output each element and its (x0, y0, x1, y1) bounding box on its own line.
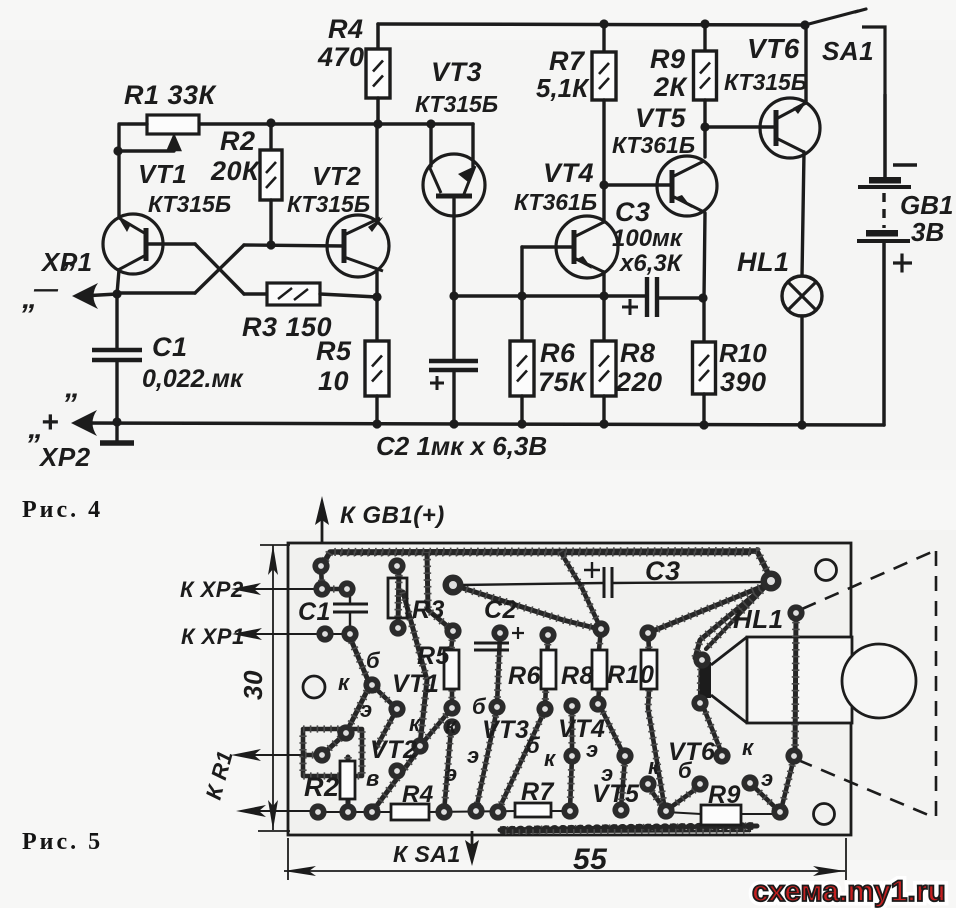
svg-text:VT2: VT2 (312, 161, 361, 191)
svg-text:R5: R5 (316, 336, 352, 366)
wire VT2 base lead (244, 245, 344, 246)
wire R7 to VT4 (602, 100, 605, 222)
lamp HL1 (782, 276, 822, 316)
svg-text:б: б (526, 733, 541, 758)
trace VT6 collector diag (703, 706, 722, 754)
PCB pad large HL1 (761, 571, 782, 592)
svg-text:”: ” (60, 257, 76, 290)
trace R2 loop (303, 729, 362, 776)
wire R7 top lead (602, 24, 605, 52)
svg-text:R6: R6 (508, 662, 542, 690)
svg-text:SA1: SA1 (822, 36, 874, 66)
wire GB1 top lead (883, 95, 887, 177)
PCB resistor R6 (541, 650, 556, 689)
svg-text:+: + (41, 406, 59, 439)
PCB pad large C2 (443, 575, 464, 596)
svg-text:э: э (586, 737, 599, 762)
junction node (699, 420, 708, 429)
junction node (266, 118, 275, 127)
wire VT3 emitter (471, 124, 474, 167)
wire VT6 collector (804, 25, 807, 103)
resistor R4 (366, 49, 390, 98)
arrow K SA1 (465, 831, 479, 866)
svg-text:30: 30 (238, 670, 268, 700)
svg-text:R8: R8 (561, 662, 594, 690)
wire R10 top lead (702, 298, 705, 342)
svg-text:3В: 3В (911, 217, 944, 247)
wire R9 top lead (703, 24, 706, 51)
wire R1 wiper (118, 149, 174, 152)
PCB pad lamp top (787, 604, 804, 621)
svg-text:VT6: VT6 (668, 738, 716, 766)
resistor R2 (260, 150, 282, 200)
trace R10 top stub (648, 633, 649, 650)
trace lamp vertical (795, 615, 796, 754)
svg-text:VT3: VT3 (482, 716, 529, 744)
svg-text:к: к (544, 746, 557, 771)
svg-text:55: 55 (573, 843, 608, 876)
svg-text:С3: С3 (615, 197, 651, 227)
PCB lamp HL1 bulb (842, 644, 916, 718)
PCB capacitor C1 (333, 592, 368, 628)
trace VT6 V left (648, 786, 664, 809)
svg-text:R10: R10 (607, 661, 654, 689)
svg-text:390: 390 (720, 367, 767, 397)
trace through R3 (398, 568, 399, 626)
svg-text:R4: R4 (328, 14, 364, 44)
thin connection line bottom row (318, 811, 391, 813)
junction node (266, 240, 275, 249)
svg-text:R5: R5 (417, 642, 451, 670)
wire VT2 emitter to R5 (375, 270, 378, 341)
svg-text:220: 220 (615, 367, 663, 397)
svg-text:0,022.мк: 0,022.мк (142, 365, 244, 393)
trace R5 bottom (420, 690, 452, 746)
trace top rail grain (340, 553, 750, 556)
svg-text:К GB1(+): К GB1(+) (340, 502, 445, 529)
wire R3 right lead (320, 294, 377, 297)
dimension 30 (258, 545, 290, 831)
trace VT6 V right (667, 786, 700, 810)
svg-text:HL1: HL1 (737, 247, 790, 277)
resistor R7 (592, 52, 616, 100)
svg-text:R2: R2 (304, 772, 340, 802)
capacitor C2 (429, 361, 478, 390)
trace VT5 base (599, 629, 601, 650)
svg-text:Рис. 4: Рис. 4 (22, 497, 103, 523)
svg-text:КТ315Б: КТ315Б (148, 191, 231, 217)
wire node line (454, 294, 645, 297)
PCB resistor R4 (391, 804, 429, 820)
svg-text:к: к (338, 670, 351, 695)
svg-text:R6: R6 (540, 338, 576, 368)
trace supply to R8 top (560, 551, 601, 629)
PCB resistor R10 (641, 650, 657, 689)
junction node (112, 289, 121, 298)
svg-text:VT1: VT1 (138, 159, 187, 189)
svg-text:470: 470 (317, 42, 365, 72)
wire HL1 bottom lead (800, 316, 803, 425)
PCB resistor R2 (340, 761, 355, 799)
trace VT1 emitter (372, 685, 397, 709)
wire VT4 base lead (522, 245, 574, 248)
wire R5 bottom lead (375, 396, 378, 424)
svg-text:VT5: VT5 (635, 103, 687, 133)
svg-text:к: к (742, 735, 755, 760)
junction node (372, 292, 381, 301)
wire to R3 (244, 292, 267, 295)
svg-text:GB1: GB1 (900, 190, 953, 220)
arrow K XP2 (231, 583, 347, 595)
svg-text:10: 10 (318, 366, 349, 396)
svg-text:К ХР2: К ХР2 (180, 577, 244, 602)
trace C3 right pad diag (695, 658, 702, 659)
wire VT5 emitter to node (704, 213, 705, 298)
junction node (112, 417, 121, 426)
switch SA1 (805, 9, 885, 95)
wire C1 bottom lead (115, 360, 118, 422)
svg-text:КТ315Б: КТ315Б (724, 69, 807, 95)
transistor VT6 (760, 98, 820, 158)
svg-text:100мк: 100мк (612, 225, 684, 252)
trace HL1 big pad to socket top (706, 581, 771, 649)
trace VT2 collector diag (372, 748, 420, 812)
svg-text:R1 33К: R1 33К (124, 80, 218, 110)
wire VT6 base lead (705, 125, 776, 128)
trace GB1 pad entry (321, 566, 347, 589)
trace VT2 emitter (376, 709, 397, 748)
svg-text:”: ” (62, 388, 78, 421)
PCB lamp HL1 body (700, 637, 852, 723)
connector XP1 (72, 283, 98, 309)
svg-text:R3: R3 (412, 596, 445, 624)
svg-text:Рис. 5: Рис. 5 (22, 829, 103, 855)
svg-text:20К: 20К (210, 156, 261, 186)
PCB mounting hole top-right (816, 560, 837, 581)
wire VT3 collector (429, 124, 432, 166)
arrow K R1 upper (231, 749, 305, 761)
trace R3 to VT2 collector (403, 592, 427, 744)
svg-text:С2: С2 (484, 596, 517, 624)
svg-text:схема.my1.ru: схема.my1.ru (752, 875, 946, 908)
wire ground stem (115, 422, 118, 441)
junction node (373, 119, 382, 128)
PCB resistor R5 (444, 650, 459, 689)
wire C2 bottom lead (452, 370, 455, 424)
wire XP1 line (82, 294, 117, 296)
resistor R8 (592, 341, 616, 396)
trace R9 right diag (751, 784, 780, 812)
junction node (599, 291, 608, 300)
wire VT6 emitter to HL1 (802, 152, 804, 276)
wire VT1 base lead (146, 242, 195, 245)
svg-text:R9: R9 (708, 781, 741, 809)
arrow K XP1 (232, 628, 330, 640)
svg-text:КТ361Б: КТ361Б (612, 132, 695, 158)
PCB pad lamp bottom (785, 747, 802, 764)
trace bottom right rail (500, 826, 757, 830)
trace C2 pad to R8 top (453, 585, 599, 629)
svg-text:R2: R2 (220, 126, 256, 156)
svg-text:2К: 2К (653, 72, 689, 102)
resistor R6 (510, 341, 534, 396)
junction node (700, 19, 709, 28)
wire base-supply rail (199, 122, 473, 126)
svg-text:э: э (360, 697, 373, 722)
transistor VT5 (657, 156, 717, 216)
svg-text:КТ361Б: КТ361Б (514, 189, 597, 215)
PCB capacitor C3 (461, 562, 767, 598)
PCB capacitor C2 (474, 627, 524, 650)
wire VT2 collector (375, 124, 378, 223)
svg-text:КТ315Б: КТ315Б (287, 191, 370, 217)
wire VT3 base column (452, 199, 455, 296)
trace vertical to R3 node (427, 552, 452, 630)
wire GB1 bottom lead (882, 241, 886, 425)
trace R5 top stub (451, 633, 453, 650)
wire R2 bottom lead (269, 200, 272, 244)
PCB resistor R9 (701, 805, 741, 825)
junction node (113, 146, 122, 155)
wire VT4 emitter to R8 (602, 272, 605, 341)
capacitor C3 (622, 277, 657, 317)
trace R2 inner (305, 753, 322, 758)
trace R6 pad column (545, 637, 548, 708)
svg-text:VT4: VT4 (543, 158, 594, 188)
junction node (700, 122, 709, 131)
svg-text:э: э (761, 766, 774, 791)
wire R1 left lead (119, 124, 147, 151)
wire bottom rail (81, 423, 884, 425)
junction node (517, 419, 526, 428)
svg-text:VT3: VT3 (431, 57, 482, 87)
svg-text:к: к (648, 754, 661, 779)
wire R9 to VT5 (703, 100, 706, 157)
thin connection line K XP1 row (288, 633, 350, 635)
trace top supply (322, 551, 771, 579)
trace R10 bottom diag (648, 690, 665, 810)
svg-text:С2 1мк х 6,3В: С2 1мк х 6,3В (376, 431, 547, 461)
resistor R5 (365, 341, 389, 396)
svg-text:к: к (445, 713, 458, 738)
junction node (599, 419, 608, 428)
trace HL1 pad fan 2 (648, 585, 766, 633)
PCB mounting hole left (303, 676, 325, 698)
wire R6 top lead (520, 247, 523, 341)
resistor R1 (trimmer) (147, 115, 199, 152)
capacitor C1 (92, 350, 142, 360)
junction node (800, 20, 809, 29)
trace R8 bottom stub (598, 690, 599, 704)
transistor VT3 (423, 154, 485, 216)
transistor VT1 (103, 214, 163, 274)
svg-text:R10: R10 (719, 338, 767, 368)
wire R6 bottom lead (520, 396, 523, 424)
wire cross-couple B (195, 245, 244, 293)
PCB pads (312, 557, 329, 574)
svg-text:к: к (409, 711, 422, 736)
svg-text:—: — (33, 276, 59, 303)
wire R4 top lead (376, 24, 380, 49)
wire R2 top lead (269, 123, 272, 150)
svg-text:КТ315Б: КТ315Б (415, 91, 498, 117)
wire cross-couple A (195, 244, 244, 294)
junction node (449, 419, 458, 428)
resistor R9 (694, 51, 717, 100)
PCB mounting hole bottom-right (814, 804, 835, 825)
svg-text:R4: R4 (402, 781, 434, 808)
wire C2 top lead (452, 296, 455, 361)
svg-text:VT6: VT6 (747, 33, 800, 64)
junction node (599, 180, 608, 189)
wire VT5 base lead (604, 183, 672, 186)
svg-text:х6,3К: х6,3К (618, 250, 684, 277)
svg-text:75К: 75К (538, 367, 588, 397)
junction node (698, 293, 707, 302)
trace C1 chain (322, 635, 370, 755)
svg-text:б: б (366, 648, 381, 673)
svg-text:в: в (366, 766, 380, 791)
svg-text:ХР2: ХР2 (38, 442, 91, 472)
svg-text:э: э (445, 761, 458, 786)
trace R2 to bottom (346, 757, 351, 812)
trace bottom rail grain (505, 831, 750, 832)
svg-text:R7: R7 (549, 46, 586, 76)
junction node (372, 419, 381, 428)
PCB resistor R7 (515, 803, 551, 817)
svg-text:э: э (467, 743, 480, 768)
trace R6 top stub (497, 635, 500, 705)
dashed speaker outline (798, 551, 936, 817)
svg-text:5,1К: 5,1К (536, 73, 590, 103)
wire R10 bottom lead (702, 394, 705, 425)
junction node (449, 291, 458, 300)
wire R8 bottom lead (602, 396, 605, 424)
trace lamp to pad (781, 758, 794, 810)
resistor R3 (267, 283, 320, 305)
trace VT3 base diag (444, 729, 451, 812)
transistor VT4 (556, 216, 618, 278)
watermark (752, 875, 946, 908)
svg-text:С1: С1 (298, 598, 331, 626)
svg-text:VT1: VT1 (392, 670, 439, 698)
wire top supply rail (378, 24, 805, 25)
dimension 55 (284, 838, 846, 880)
transistor VT2 (327, 215, 389, 277)
arrow K GB1(+) (315, 496, 329, 543)
PCB board outline (288, 543, 851, 835)
resistor R10 (693, 342, 716, 394)
wire to VT1 emitter node (119, 291, 195, 294)
svg-text:К SA1: К SA1 (393, 841, 461, 867)
junction node (599, 19, 608, 28)
svg-text:VT2: VT2 (370, 736, 417, 764)
svg-text:К ХР1: К ХР1 (181, 624, 245, 649)
trace VT3 emitter diag (476, 709, 497, 810)
wire VT1 emitter to C1 (117, 270, 119, 349)
trace lamp socket vertical (700, 662, 701, 702)
connector XP2 (71, 410, 97, 436)
svg-text:С3: С3 (645, 556, 681, 586)
trace VT5 column (570, 708, 572, 810)
arrow K R1 lower (236, 805, 318, 817)
svg-text:С1: С1 (152, 332, 188, 362)
junction node (426, 119, 435, 128)
trace HL1 pad fan 1 (695, 581, 771, 658)
svg-text:VT5: VT5 (592, 780, 640, 808)
PCB resistor R3 (388, 578, 407, 618)
svg-text:R7: R7 (521, 778, 555, 806)
PCB resistor R8 (592, 650, 607, 689)
junction node (797, 420, 806, 429)
svg-text:R8: R8 (620, 338, 656, 368)
svg-text:HL1: HL1 (733, 604, 784, 634)
trace VT4 emitter column (600, 706, 623, 753)
svg-text:R9: R9 (650, 44, 686, 74)
trace VT4 emitter diag (498, 710, 545, 811)
wire C3 right lead (657, 296, 703, 299)
junction node (517, 291, 526, 300)
wire R4 bottom lead (376, 98, 380, 124)
wire VT1 collector (117, 151, 120, 217)
